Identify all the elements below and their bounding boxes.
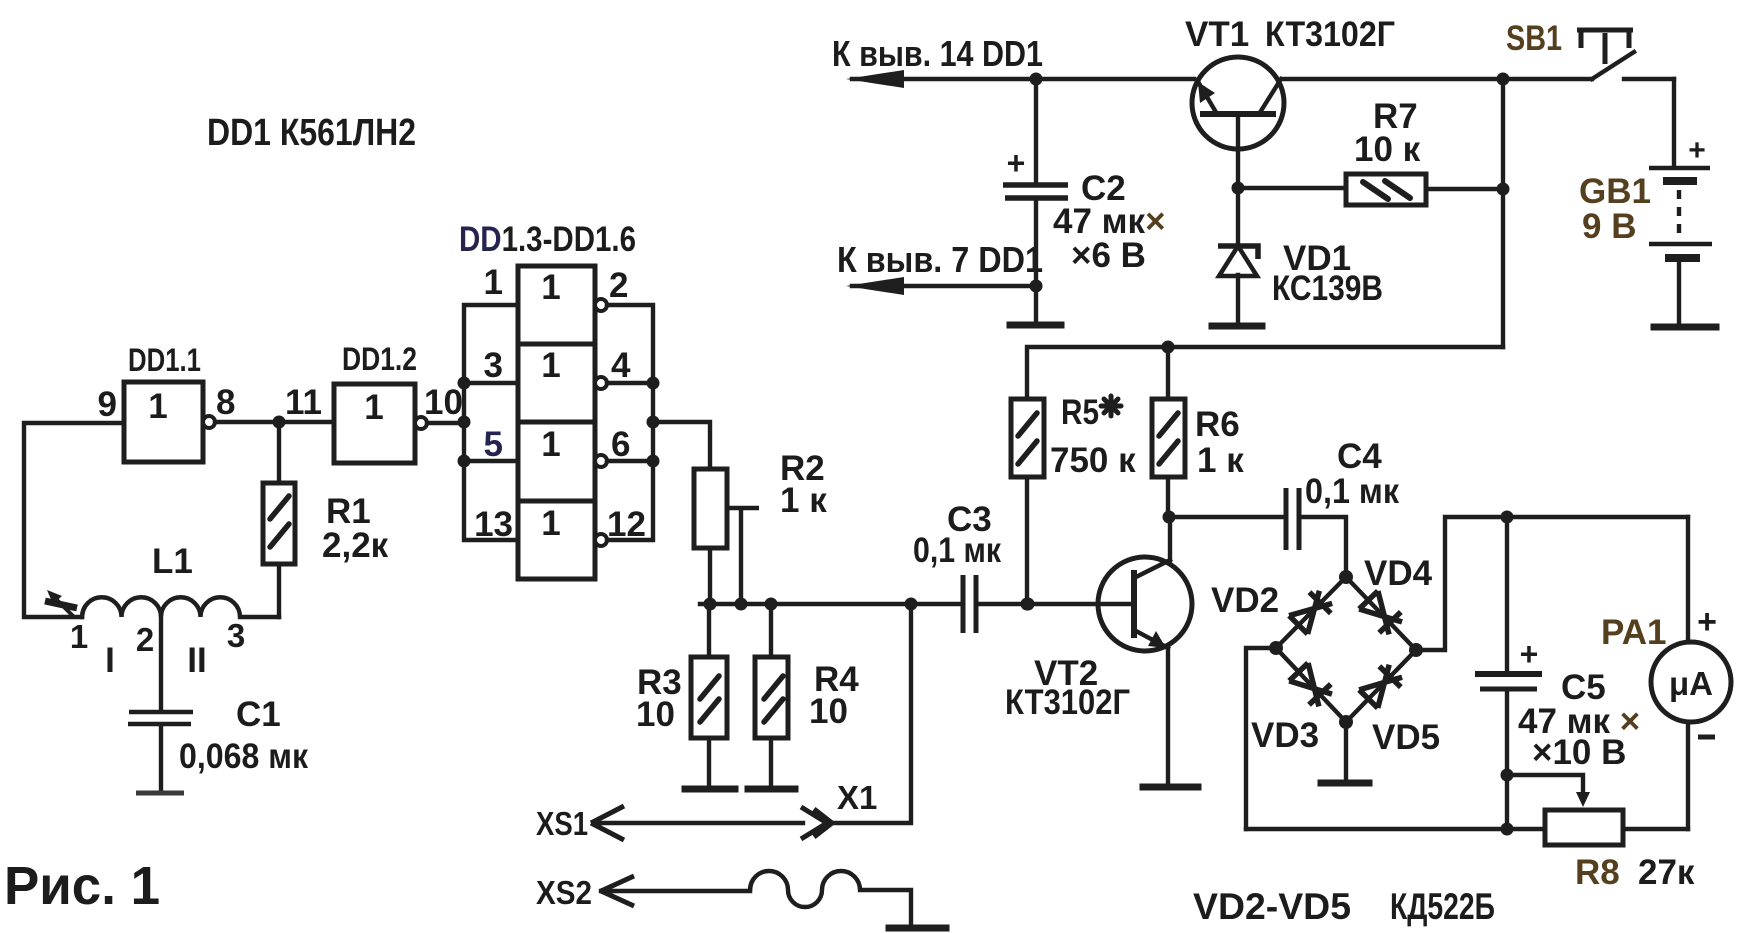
svg-text:1: 1 [148,387,167,426]
gate DD1.1 [124,382,215,462]
bridge frame [1269,570,1423,729]
wire bottom rail [1246,827,1688,831]
pin 4 [611,346,631,385]
label R3 10 [636,663,682,734]
svg-text:VD5: VD5 [1372,718,1440,757]
pin 8 [216,383,235,422]
svg-text:1 к: 1 к [1197,441,1244,480]
capacitor C2 [1003,79,1068,321]
label minus PA1 [1698,735,1715,740]
svg-text:C4: C4 [1337,437,1382,476]
L1 winding II [187,641,206,680]
transistor VT1 label [1185,15,1395,54]
svg-text:К выв. 14 DD1: К выв. 14 DD1 [832,33,1043,74]
resistor R2 [694,469,727,604]
pin 3 [484,346,503,385]
pin 5 [484,425,503,464]
resistor R3 [691,604,727,786]
svg-text:I: I [105,641,115,680]
ground R3 [685,786,735,793]
resistor R1 [263,422,295,617]
resistor R4 [755,604,788,786]
svg-text:C1: C1 [236,695,281,734]
wire output bus [607,305,660,540]
resistor R7 [1346,174,1504,205]
svg-text:VD4: VD4 [1364,554,1433,593]
pin 2 [609,266,628,305]
wire supply arrow to pin14 [846,70,1194,88]
label C2 47mk x6V [1053,169,1166,275]
resistor R6 [1152,399,1185,517]
wire block output to R2 [653,422,710,469]
node VT2 collector [1163,511,1176,524]
ground VD1 [1212,323,1262,330]
wire bridge left to bottom rail [1246,648,1276,829]
svg-text:R6: R6 [1195,405,1240,444]
label C4 0,1mk [1305,437,1399,511]
wire collector to C4 [1169,515,1284,519]
diode VD4 [1358,590,1407,639]
L1 tap 1 [70,618,88,655]
label VD2 [1211,581,1279,620]
svg-text:6: 6 [611,425,630,464]
ground R4 [748,786,795,793]
label VT2 KT3102G [1005,654,1130,722]
svg-text:+: + [1697,603,1717,641]
wire base to R7 [1238,186,1346,190]
svg-text:10: 10 [809,692,848,731]
ground battery [1654,324,1716,331]
wire arrow to pin7 [846,277,1043,295]
svg-text:0,068 мк: 0,068 мк [179,737,308,776]
ground XS2 [889,925,946,932]
diode VD3 [1288,662,1337,711]
wire emitter node rail [700,598,962,611]
label C1 [179,695,308,776]
pin 6 [611,425,630,464]
svg-text:12: 12 [607,505,646,544]
svg-text:10: 10 [424,383,463,422]
wire bridge bottom to ground [1344,722,1348,779]
svg-text:VD2-VD5: VD2-VD5 [1193,886,1351,927]
label K vyv.7 DD1 [837,239,1043,280]
svg-text:2,2к: 2,2к [322,526,389,565]
ground bridge [1321,780,1369,787]
svg-text:GB1: GB1 [1579,172,1651,211]
svg-text:27к: 27к [1638,853,1695,892]
wire XS2 line with arrow and loop [601,871,911,925]
svg-text:XS1: XS1 [536,805,588,842]
svg-text:DD1.3-DD1.6: DD1.3-DD1.6 [459,220,636,259]
svg-text:10 к: 10 к [1354,130,1421,169]
svg-text:1: 1 [541,504,560,543]
svg-text:R5: R5 [1061,393,1099,432]
zener VD1 [1218,188,1258,321]
label R6 1k [1195,405,1244,480]
label C3 0,1mk [913,500,1001,570]
connector XS2 label [536,874,592,911]
node switch branch [1497,73,1510,86]
label VD4 [1364,554,1433,593]
svg-text:1 к: 1 к [780,481,827,520]
wire input bus [458,305,519,540]
svg-text:×10 В: ×10 В [1532,733,1626,772]
transistor VT2 [1098,517,1192,783]
figure caption [4,856,160,916]
svg-text:КТ3102Г: КТ3102Г [1265,15,1395,54]
ground C2 [1010,322,1061,329]
svg-text:DD1.1: DD1.1 [128,342,201,378]
wire DD1.2 out to bus [427,421,464,425]
svg-text:DD1 К561ЛН2: DD1 К561ЛН2 [207,112,416,154]
svg-text:10: 10 [636,695,675,734]
svg-text:+: + [1520,636,1539,672]
svg-text:+: + [1007,145,1026,181]
wire bridge right to DC rail [1416,517,1688,650]
L1 tap 3 [227,617,245,654]
L1 trimmer arrow [45,590,77,617]
capacitor C3 [963,575,1134,633]
capacitor C5 [1475,517,1542,836]
wire X1 to emitter rail [831,604,911,823]
label R5 750k [1050,393,1136,480]
wire L1 center tap [159,617,163,710]
svg-text:VD3: VD3 [1251,716,1319,755]
svg-text:VT1: VT1 [1185,15,1249,54]
pin 13 [474,505,513,544]
connector X1 chevrons [801,807,832,839]
svg-text:13: 13 [474,505,513,544]
label L1 [152,542,193,581]
svg-text:DD1.2: DD1.2 [342,341,417,377]
label VD1 KS139V [1272,239,1383,308]
svg-text:КД522Б: КД522Б [1390,886,1495,927]
label R7 10k [1354,97,1421,169]
battery GB1 label [1579,172,1651,246]
pin 9 [98,385,117,424]
svg-text:11: 11 [285,383,322,422]
label R4 10 [809,660,859,731]
label R2 1k [780,449,827,520]
svg-text:1: 1 [541,268,560,307]
block label DD1.3-DD1.6 [459,220,636,259]
connector XS1 label [536,805,588,842]
svg-text:5: 5 [484,425,503,464]
svg-text:SB1: SB1 [1506,19,1562,58]
meter PA1 [1651,517,1731,829]
label X1 [837,779,877,816]
svg-text:1: 1 [484,263,503,302]
wire XS1 probe line with arrow [591,806,803,840]
transistor VT1 [1192,57,1284,188]
svg-text:×6 В: ×6 В [1071,236,1146,275]
svg-text:1: 1 [541,425,560,464]
gate DD1.1 label [128,342,201,378]
wire right vertical [1497,79,1510,347]
R2 tap stub [727,508,759,604]
switch SB1 label [1506,19,1562,58]
svg-text:2: 2 [609,266,628,305]
svg-text:L1: L1 [152,542,193,581]
wire DD1.1 out to DD1.2 in [215,420,334,424]
battery GB1 [1649,79,1712,323]
pin 1 [484,263,503,302]
svg-text:9 В: 9 В [1582,207,1636,246]
svg-text:0,1 мк: 0,1 мк [1305,472,1399,511]
L1 tap 2 [136,621,154,658]
svg-text:0,1 мк: 0,1 мк [913,531,1001,570]
label VD3 [1251,716,1319,755]
inverter block DD1.3-DD1.6 [518,266,607,579]
svg-text:VD2: VD2 [1211,581,1279,620]
svg-text:4: 4 [611,346,631,385]
svg-text:PA1: PA1 [1601,613,1667,652]
svg-text:μА: μА [1669,665,1713,702]
label plus PA1 [1697,603,1717,641]
gate DD1.2 [334,384,427,463]
svg-text:1: 1 [364,388,383,427]
svg-text:X1: X1 [837,779,877,816]
label VD5 [1372,718,1440,757]
svg-text:+: + [1688,134,1706,167]
wire wiper to R8 [1507,775,1590,807]
svg-text:Рис. 1: Рис. 1 [4,856,160,916]
label R8 27k [1575,853,1695,892]
switch SB1 [1577,30,1674,79]
potentiometer R8 [1545,810,1623,845]
gate DD1.2 label [342,341,417,377]
pin 11 [285,383,322,422]
svg-text:II: II [187,641,206,680]
wire collector rail to switch [1282,77,1592,81]
resistor R5 [1011,399,1044,611]
pin 12 [607,505,646,544]
pin 10 [424,383,463,422]
wire lower supply rail [1027,341,1503,400]
label R1 2,2k [322,492,389,565]
diode VD2 [1288,587,1337,636]
label C5 47mk x10V [1518,668,1640,772]
svg-text:9: 9 [98,385,117,424]
node C5 top [1501,511,1514,524]
svg-text:1: 1 [70,618,88,655]
svg-text:3: 3 [227,617,245,654]
inductor L1 [82,597,279,617]
svg-text:КС139В: КС139В [1272,269,1383,308]
chip label DD1 K561LN2 [207,112,416,154]
svg-text:К выв. 7 DD1: К выв. 7 DD1 [837,239,1043,280]
L1 winding I [105,641,115,680]
node C2 top [1030,73,1043,86]
svg-text:750 к: 750 к [1050,441,1136,480]
capacitor C4 [1286,488,1346,572]
diode VD5 [1358,660,1407,709]
wire feedback loop pin9 to L1 [24,423,124,617]
node junction R1 top [273,416,286,429]
node VT1 base [1232,182,1245,195]
svg-text:КТ3102Г: КТ3102Г [1005,683,1130,722]
svg-text:1: 1 [541,346,560,385]
svg-text:R8: R8 [1575,853,1620,892]
svg-text:3: 3 [484,346,503,385]
label VD2-VD5 KD522B [1193,886,1495,927]
label K vyv.14 DD1 [832,33,1043,74]
label PA1 [1601,613,1667,652]
capacitor C1 [128,712,193,790]
ground VT2 [1143,784,1198,791]
svg-text:XS2: XS2 [536,874,592,911]
svg-text:2: 2 [136,621,154,658]
ground C1 [136,791,184,796]
svg-text:8: 8 [216,383,235,422]
